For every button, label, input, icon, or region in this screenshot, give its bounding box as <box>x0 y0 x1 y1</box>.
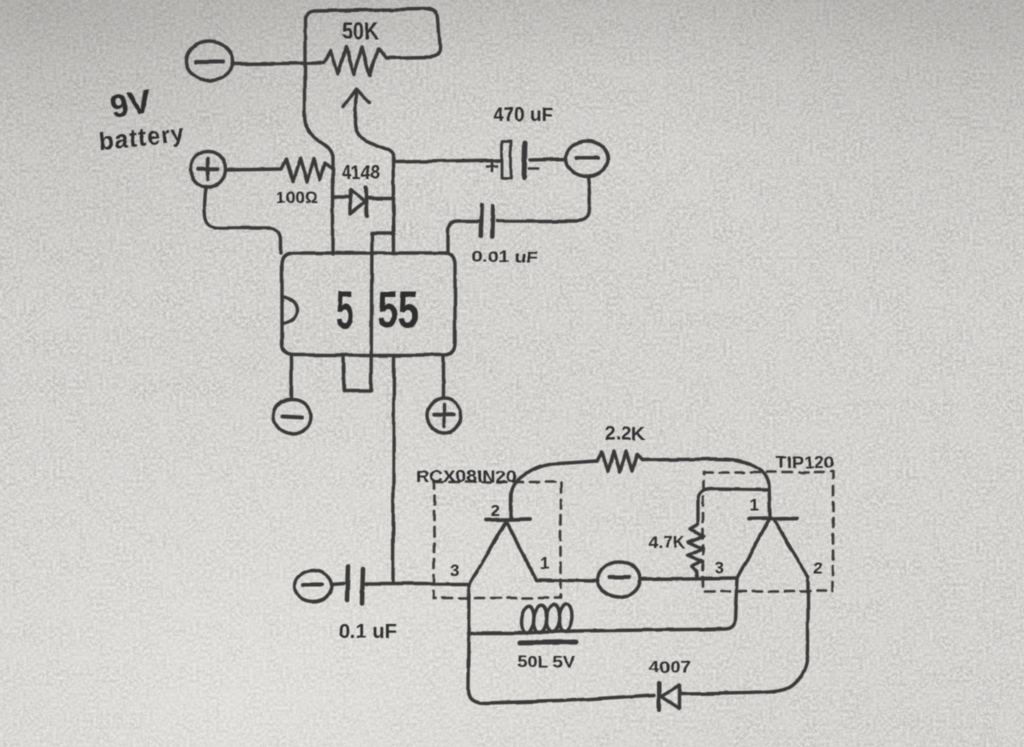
svg-text:2: 2 <box>813 558 822 577</box>
svg-text:55: 55 <box>377 280 419 340</box>
svg-text:50K: 50K <box>342 18 379 45</box>
svg-text:1: 1 <box>540 554 549 573</box>
svg-text:0.1 uF: 0.1 uF <box>339 621 397 643</box>
svg-text:4.7K: 4.7K <box>649 533 686 552</box>
svg-text:RCX08IN20: RCX08IN20 <box>416 467 517 486</box>
svg-text:2.2K: 2.2K <box>605 424 645 445</box>
svg-text:470 uF: 470 uF <box>493 105 553 126</box>
svg-text:1: 1 <box>750 496 759 515</box>
svg-text:3: 3 <box>715 558 724 577</box>
svg-text:3: 3 <box>450 561 459 580</box>
svg-text:0.01 uF: 0.01 uF <box>472 249 538 266</box>
svg-text:5: 5 <box>336 280 354 340</box>
svg-text:TIP120: TIP120 <box>776 453 834 472</box>
svg-text:4148: 4148 <box>342 162 380 184</box>
svg-text:100Ω: 100Ω <box>276 188 318 207</box>
svg-text:50L 5V: 50L 5V <box>517 654 575 671</box>
svg-text:2: 2 <box>491 501 500 520</box>
svg-text:4007: 4007 <box>649 659 691 676</box>
svg-text:9V: 9V <box>108 82 154 125</box>
